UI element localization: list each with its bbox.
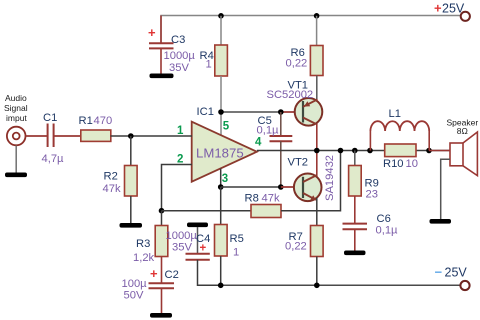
svg-text:R3: R3 xyxy=(136,238,150,250)
svg-text:C3: C3 xyxy=(171,34,185,46)
svg-text:2: 2 xyxy=(177,154,183,166)
wire output rail xyxy=(257,150,450,152)
node junction top rail / R4 xyxy=(218,13,224,19)
resistor R5 xyxy=(215,225,244,259)
svg-text:4,7µ: 4,7µ xyxy=(42,153,65,165)
speaker xyxy=(429,118,478,176)
svg-text:−: − xyxy=(435,265,443,280)
node output VT junction xyxy=(314,148,320,154)
wire top +25V rail xyxy=(161,16,461,44)
wire VT2 base xyxy=(281,186,303,188)
ground under C6 xyxy=(344,251,366,256)
svg-text:1,2k: 1,2k xyxy=(133,252,155,264)
resistor R8 xyxy=(245,193,282,218)
node pin5 junction xyxy=(218,109,224,115)
svg-text:0,1µ: 0,1µ xyxy=(257,125,280,137)
wire pin3 to R5 xyxy=(220,187,222,225)
wire pin3 lead xyxy=(220,169,222,188)
svg-text:SC52002: SC52002 xyxy=(267,89,314,101)
op-amp IC1 LM1875 xyxy=(192,106,257,182)
wire R5 bottom xyxy=(220,256,222,285)
wire R1 to pin 1 xyxy=(111,135,193,137)
svg-text:+: + xyxy=(148,25,156,40)
wire R8 right to output rail xyxy=(281,151,341,211)
svg-text:LM1875: LM1875 xyxy=(196,146,244,161)
wire R9 top xyxy=(354,151,356,166)
svg-text:0,22: 0,22 xyxy=(285,241,307,253)
svg-text:SA19432: SA19432 xyxy=(324,155,336,201)
wire V+ net horizontal xyxy=(221,111,281,113)
svg-text:470: 470 xyxy=(94,115,113,127)
node junction pin1 / R2 xyxy=(128,133,134,139)
wire R9 to C6 xyxy=(354,196,356,224)
capacitor C3 xyxy=(148,16,195,75)
svg-text:Signal: Signal xyxy=(4,103,28,113)
svg-text:0,22: 0,22 xyxy=(286,58,308,70)
svg-text:35V: 35V xyxy=(169,62,189,74)
svg-text:47k: 47k xyxy=(103,183,121,195)
svg-text:R10: R10 xyxy=(383,158,404,170)
svg-text:R5: R5 xyxy=(230,233,244,245)
ground under C2 xyxy=(150,313,172,318)
node C5 bottom junction xyxy=(278,184,284,190)
node output R9 junction xyxy=(352,148,358,154)
svg-text:1: 1 xyxy=(206,59,212,71)
wire R2 bottom xyxy=(130,196,132,223)
svg-text:1000µ: 1000µ xyxy=(166,230,198,242)
node junction pin3 xyxy=(218,184,224,190)
capacitor C4 xyxy=(166,227,211,260)
wire R3 top xyxy=(161,211,163,226)
svg-text:47k: 47k xyxy=(262,193,280,205)
svg-text:1000µ: 1000µ xyxy=(164,50,196,62)
wire connector to C1 xyxy=(26,135,48,137)
transistor VT2 xyxy=(288,151,337,202)
wire pin 2 L-shape xyxy=(162,165,193,211)
wire feedback R8 horizontal xyxy=(162,210,252,212)
svg-text:+: + xyxy=(434,1,442,16)
resistor R2 xyxy=(103,166,138,197)
wire bottom -25V rail xyxy=(221,284,461,286)
node output L1 left junction xyxy=(367,148,373,154)
node R7 bottom junction xyxy=(314,283,320,289)
ground above C4 xyxy=(187,223,208,228)
capacitor C5 xyxy=(257,112,293,187)
resistor R7 xyxy=(285,226,323,257)
svg-text:R1: R1 xyxy=(79,115,93,127)
wire R3 to C2 xyxy=(161,257,163,284)
wire R6 top xyxy=(316,16,318,46)
svg-text:R2: R2 xyxy=(104,171,118,183)
wire speaker to ground xyxy=(441,159,450,219)
node R5 bottom junction xyxy=(218,283,224,289)
wire R4 bottom to pin5 xyxy=(220,76,222,136)
svg-text:C2: C2 xyxy=(165,269,179,281)
svg-text:10: 10 xyxy=(406,158,418,170)
svg-text:C6: C6 xyxy=(377,213,391,225)
svg-text:0,1µ: 0,1µ xyxy=(376,225,399,237)
svg-text:8Ω: 8Ω xyxy=(457,126,468,136)
ground under connector xyxy=(5,173,27,178)
svg-text:imput: imput xyxy=(6,113,27,123)
wire pin3 net horizontal xyxy=(221,186,281,188)
resistor R4 xyxy=(200,45,228,76)
terminal +25V xyxy=(461,12,470,21)
resistor R3 xyxy=(133,226,168,265)
svg-text:25V: 25V xyxy=(442,2,465,16)
resistor R6 xyxy=(286,46,324,76)
svg-text:100µ: 100µ xyxy=(122,278,148,290)
transistor VT1 xyxy=(267,80,323,152)
svg-text:1: 1 xyxy=(233,247,239,259)
svg-text:50V: 50V xyxy=(124,290,144,302)
svg-text:1: 1 xyxy=(177,125,184,137)
svg-text:L1: L1 xyxy=(389,108,401,120)
inductor L1 xyxy=(370,108,429,151)
ground under speaker xyxy=(430,219,452,224)
svg-text:VT2: VT2 xyxy=(288,157,309,169)
wire R2 top xyxy=(130,136,132,166)
svg-text:C4: C4 xyxy=(196,233,210,245)
node junction top rail / R6 xyxy=(314,13,320,19)
svg-text:5: 5 xyxy=(223,121,230,133)
ground under R2 xyxy=(120,223,143,228)
svg-text:+: + xyxy=(150,266,158,281)
wire C4 bottom to -25V rail xyxy=(198,260,221,286)
resistor R1 xyxy=(79,115,113,141)
svg-text:C1: C1 xyxy=(43,112,57,124)
svg-text:R8: R8 xyxy=(245,193,259,205)
wire connector to ground xyxy=(15,146,17,173)
connector audio input xyxy=(4,93,28,145)
svg-text:Audio: Audio xyxy=(5,93,27,103)
capacitor C2 xyxy=(122,266,179,313)
resistor R10 xyxy=(383,144,418,170)
svg-text:35V: 35V xyxy=(172,242,192,254)
capacitor C1 xyxy=(42,112,65,165)
wire C1 to R1 xyxy=(54,135,81,137)
node output R8 junction xyxy=(338,148,344,154)
capacitor C6 xyxy=(343,213,399,251)
wire R4 top xyxy=(220,16,222,45)
wire R6 bottom to VT1 collector xyxy=(316,76,318,101)
node C5 top junction xyxy=(278,109,284,115)
terminal -25V xyxy=(460,281,469,290)
svg-text:23: 23 xyxy=(366,189,378,201)
wire VT1 base xyxy=(281,111,303,113)
resistor R9 xyxy=(349,166,379,201)
node output L1 right junction xyxy=(426,148,432,154)
svg-text:25V: 25V xyxy=(445,266,468,280)
wire VT2 emitter to R7 xyxy=(316,198,318,226)
svg-text:IC1: IC1 xyxy=(197,106,214,118)
ground under C3 xyxy=(150,74,174,79)
svg-text:3: 3 xyxy=(222,173,228,185)
wire R7 bottom xyxy=(316,257,318,286)
node junction pin2 / R3 / R8 xyxy=(159,208,165,214)
svg-text:4: 4 xyxy=(255,137,262,149)
